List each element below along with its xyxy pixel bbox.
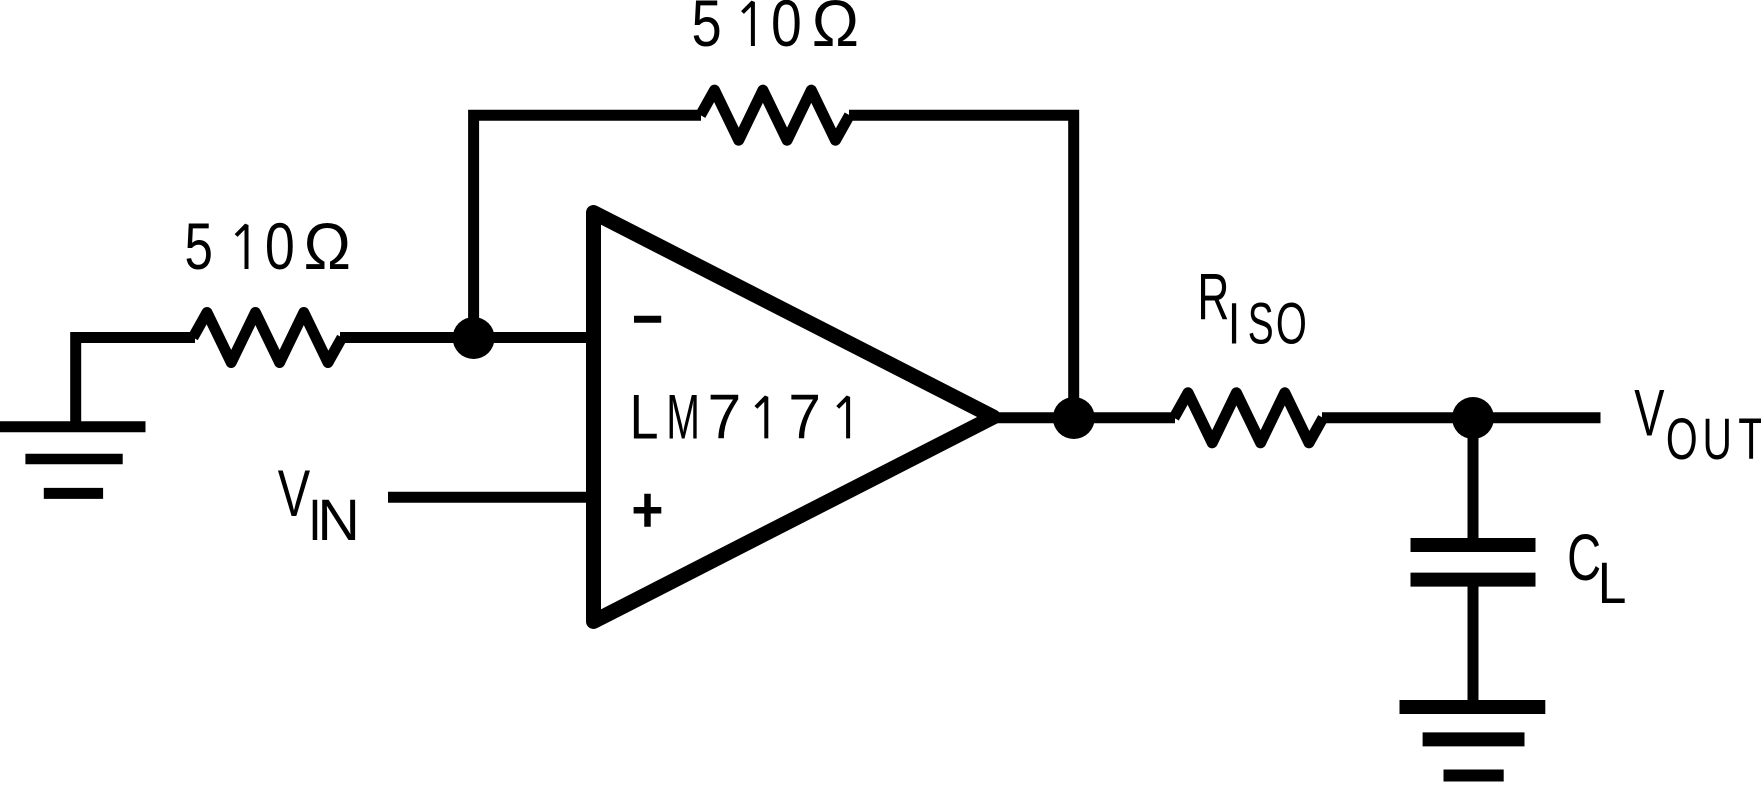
- svg-text:5: 5: [692, 0, 722, 60]
- wire op-amp output to RISO: [993, 412, 1175, 423]
- svg-text:C: C: [1567, 521, 1601, 595]
- wire output node down to CL: [1468, 418, 1479, 540]
- svg-text:L: L: [630, 383, 659, 453]
- svg-text:V: V: [278, 458, 311, 531]
- label U1 LM7171: [630, 381, 849, 452]
- wire VIN to op-amp non-inverting input: [388, 492, 594, 503]
- svg-text:R: R: [1197, 260, 1229, 334]
- label VOUT: [1634, 376, 1761, 472]
- svg-text:V: V: [1634, 376, 1664, 449]
- node B junction dot (op-amp output): [1053, 397, 1095, 439]
- label R1 value 510 ohm (left): [185, 209, 352, 284]
- svg-text:T: T: [1738, 406, 1761, 471]
- wire input left segment + down to ground: [76, 338, 195, 428]
- svg-text:U: U: [1703, 407, 1732, 472]
- svg-text:7: 7: [788, 381, 821, 451]
- U1 inverting input marker minus: [634, 316, 661, 323]
- wire feedback: node A up and across to R2: [474, 115, 701, 338]
- label RISO: [1197, 260, 1306, 357]
- U1 non-inverting input marker plus: [634, 494, 662, 527]
- resistor RISO: [1174, 393, 1323, 443]
- svg-text:I: I: [1228, 292, 1241, 357]
- svg-text:Ω: Ω: [812, 0, 859, 60]
- svg-text:0: 0: [265, 209, 295, 284]
- svg-text:N: N: [317, 488, 360, 552]
- svg-text:0: 0: [771, 0, 802, 60]
- ground GND1 (left): [0, 427, 146, 494]
- label CL: [1567, 521, 1626, 615]
- wire R1 to node A: [340, 332, 474, 343]
- ground GND2 (right): [1400, 707, 1546, 776]
- svg-text:M: M: [666, 382, 700, 452]
- node C junction dot (load): [1452, 397, 1494, 439]
- capacitor CL plates: [1411, 545, 1536, 580]
- wire CL to ground: [1468, 583, 1479, 707]
- resistor R2 510 ohm feedback: [701, 90, 850, 140]
- svg-text:5: 5: [185, 210, 213, 284]
- label VIN: [278, 458, 360, 553]
- label R2 value 510 ohm (top): [692, 0, 860, 60]
- wire RISO to VOUT end: [1322, 412, 1601, 423]
- node A junction dot (inverting input): [453, 317, 495, 359]
- svg-text:O: O: [1666, 407, 1698, 472]
- wire node A to op-amp inverting input: [474, 332, 594, 343]
- svg-text:L: L: [1598, 550, 1627, 616]
- op-amp U1 LM7171 triangle: [594, 213, 994, 622]
- resistor R1 510 ohm input: [193, 313, 342, 363]
- svg-text:7: 7: [708, 382, 742, 452]
- svg-text:Ω: Ω: [304, 209, 352, 283]
- svg-text:O: O: [1276, 291, 1307, 356]
- svg-text:S: S: [1248, 292, 1274, 357]
- wire feedback: R2 to output node, down: [849, 115, 1074, 418]
